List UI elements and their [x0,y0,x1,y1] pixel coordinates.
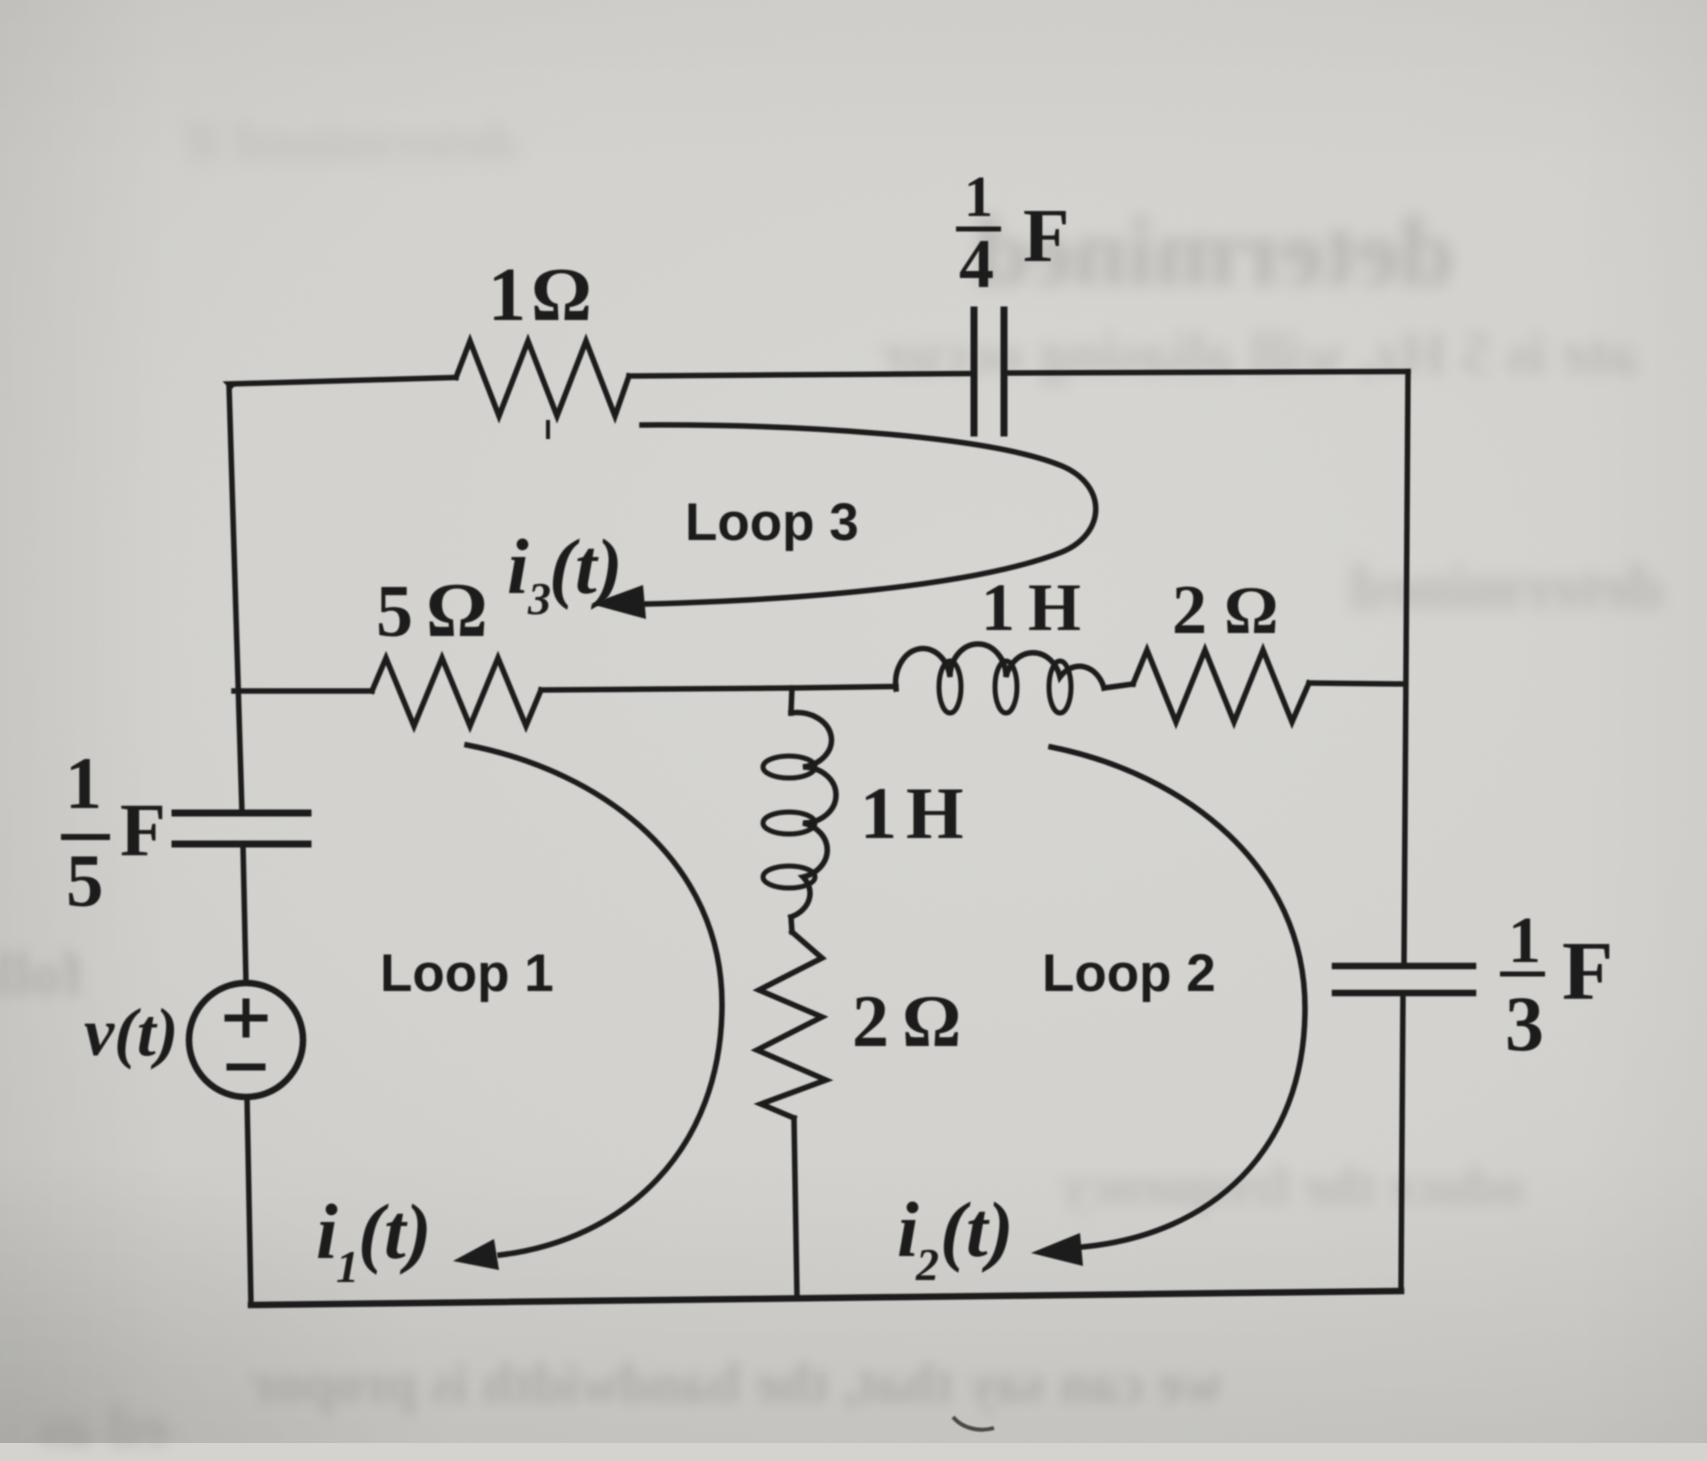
svg-text:5: 5 [66,840,104,923]
resistor 2 ohm (middle, vertical) [757,932,826,1118]
wire: right side down to cap 1/3F [1404,372,1408,967]
svg-text:i: i [507,523,529,610]
loop 3 arrow curve [642,425,1096,604]
svg-text:i: i [316,1188,338,1275]
svg-text:1: 1 [488,253,526,337]
svg-text:Ω: Ω [902,981,961,1063]
middle wire: R5 to junction and to inductor [541,687,896,691]
svg-text:1: 1 [964,164,993,229]
svg-text:3: 3 [1505,980,1544,1067]
svg-text:Ω: Ω [531,253,592,337]
svg-text:(t): (t) [358,1188,432,1275]
wire: bottom-left up to source [247,1097,251,1305]
svg-text:Ω: Ω [1224,572,1278,648]
loop 1 arrow curve [467,745,722,1255]
inductor 1H loops [939,661,961,713]
middle wire: left to resistor 5 ohm [234,688,372,694]
capacitor 1/5F plates [175,841,308,848]
capacitor 1/3F plates [1335,963,1473,970]
svg-text:Ω: Ω [426,567,488,653]
bleed-through text from reverse page side [975,196,1454,308]
svg-text:1: 1 [1508,904,1541,977]
source v(t) circle [189,983,303,1097]
svg-text:H: H [1028,569,1081,645]
svg-text:2: 2 [852,981,889,1063]
wire: cap 1/3F to bottom-right corner [1401,993,1403,1291]
svg-text:(t): (t) [549,523,623,610]
wire: cap 1/5F to top-left corner [229,385,242,813]
svg-text:5: 5 [376,571,413,653]
source plus sign [228,1002,264,1034]
svg-text:Loop 1: Loop 1 [380,944,554,1003]
loop 3 arrowhead [591,585,646,619]
svg-text:H: H [906,773,964,855]
svg-text:1: 1 [65,743,102,825]
wire: R2 to right side [1309,683,1405,684]
inductor 1H (middle, vertical) humps [791,713,836,917]
wire: inductor to resistor 2 ohm (top) [1104,684,1133,688]
source minus sign [230,1064,262,1071]
loop 1 arrowhead [453,1239,499,1270]
wire: top-left corner to resistor R 1ohm [229,378,456,387]
wire: inductor to resistor 2 ohm (middle) [791,917,792,932]
stray tick mark below R1 [546,420,550,439]
svg-text:Loop 3: Loop 3 [685,493,859,552]
svg-text:F: F [120,789,166,872]
wire: capacitor to top-right corner [1004,372,1408,374]
loop 2 arrowhead [1031,1233,1083,1266]
loop 2 arrow curve [1051,747,1305,1247]
svg-text:3: 3 [527,573,551,624]
svg-text:2: 2 [915,1239,939,1290]
svg-text:1: 1 [336,1241,359,1292]
svg-text:4: 4 [959,226,994,303]
inductor 1H (middle) loops [763,756,815,778]
resistor 5 ohm [372,658,541,726]
pen mark bottom [953,1417,994,1430]
svg-text:F: F [1562,925,1613,1018]
wire: R1 to capacitor 1/4F left plate [629,374,974,377]
wire: R2 middle to bottom wire [794,1118,797,1298]
resistor 1 ohm (top) [456,341,629,416]
wire: source to cap 1/5F [243,845,246,983]
svg-text:1: 1 [981,569,1015,645]
svg-text:(t): (t) [940,1186,1014,1273]
svg-text:v(t): v(t) [84,994,178,1070]
svg-text:2: 2 [1172,572,1207,649]
svg-text:F: F [1023,194,1069,278]
middle branch: junction stub down [791,688,792,713]
inductor 1H (top, horizontal) humps [896,644,1104,689]
svg-text:1: 1 [860,773,897,855]
svg-text:Loop 2: Loop 2 [1042,944,1216,1003]
resistor 2 ohm (top) [1133,650,1309,722]
bottom wire [251,1291,1401,1305]
capacitor 1/4F plates [971,310,978,433]
